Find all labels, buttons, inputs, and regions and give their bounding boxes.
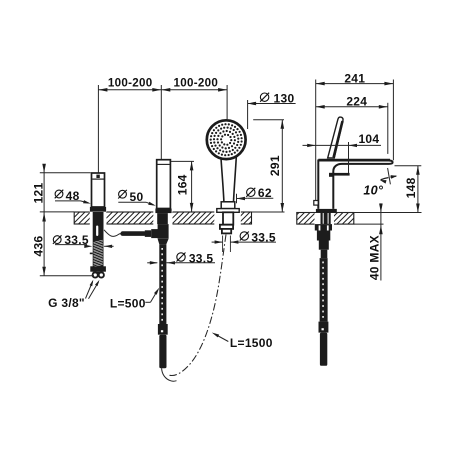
label D62 xyxy=(247,188,255,196)
dimension 121 / 436 xyxy=(43,164,45,275)
svg-text:100-200: 100-200 xyxy=(173,76,218,89)
dimension 164 xyxy=(171,160,194,162)
side tab xyxy=(314,201,318,206)
middle column cap xyxy=(157,160,171,209)
mixer lever xyxy=(328,117,343,158)
svg-text:104: 104 xyxy=(358,132,379,146)
dimension D130 xyxy=(260,93,268,101)
right view hose lower part xyxy=(320,333,327,366)
holder extension lines xyxy=(222,236,224,253)
svg-text:148: 148 xyxy=(404,177,418,198)
left handle indicator dot xyxy=(96,175,99,178)
left handle cap line xyxy=(92,178,104,180)
label D50 xyxy=(119,190,127,198)
svg-text:L=500: L=500 xyxy=(110,296,146,310)
braided hose L=500 upper part xyxy=(159,244,166,324)
middle column lower nut xyxy=(158,224,169,239)
label D33.5 holder rod xyxy=(240,232,248,240)
handshower holder flange xyxy=(217,209,239,213)
handshower hose curve L=1500 xyxy=(170,235,227,376)
svg-text:40 MAX: 40 MAX xyxy=(368,235,382,280)
svg-text:241: 241 xyxy=(344,71,365,85)
left handle column body xyxy=(92,173,105,207)
hose end curve xyxy=(162,368,177,381)
svg-text:100-200: 100-200 xyxy=(108,76,153,89)
right view hose connector xyxy=(319,322,329,333)
left rod bottom collar xyxy=(90,266,106,271)
thin hose s-curve xyxy=(104,230,121,237)
taper into braided hose xyxy=(158,239,169,245)
dimension 148 xyxy=(395,165,422,167)
svg-text:L=1500: L=1500 xyxy=(230,336,273,350)
deck slab right view xyxy=(297,213,354,225)
dimension 291 xyxy=(253,119,284,121)
handshower handle xyxy=(221,153,237,202)
mixer body outline xyxy=(318,161,392,209)
left rod white slot xyxy=(96,226,98,237)
right view mounting nut xyxy=(315,224,332,230)
deck top line extension right view xyxy=(297,212,422,214)
handshower head xyxy=(207,120,246,159)
middle column through-deck xyxy=(157,213,168,224)
spout top thick line xyxy=(318,159,390,161)
right view braided hose xyxy=(320,258,328,322)
deck bottom line extension right view xyxy=(354,223,384,225)
svg-text:121: 121 xyxy=(32,183,46,204)
holder through-deck rod xyxy=(223,212,233,224)
middle column base flange xyxy=(155,209,171,214)
extension line left handle centerline xyxy=(97,85,99,173)
dimension 100-200 second span xyxy=(161,89,227,91)
aerator bar under spout xyxy=(329,173,350,176)
svg-text:436: 436 xyxy=(32,236,46,257)
dimension 104 xyxy=(348,142,350,173)
handshower spray dots xyxy=(210,123,243,156)
angle indicator 10deg xyxy=(388,168,391,184)
dimension 224 xyxy=(387,103,389,154)
left handle base flange xyxy=(90,207,106,212)
holder lower nut xyxy=(220,225,233,229)
handshower holder collar xyxy=(221,202,235,209)
svg-text:224: 224 xyxy=(346,94,367,108)
dimension 241 xyxy=(315,80,317,202)
left handle threaded rod below deck xyxy=(93,212,104,267)
extension line handshower centerline xyxy=(226,85,228,119)
right view through-deck rod xyxy=(321,213,331,225)
label D33.5 left rod xyxy=(53,236,61,244)
dimension 100-200 first span xyxy=(98,89,161,91)
deck slab left view xyxy=(74,212,251,224)
mixer base flange xyxy=(316,209,337,213)
hose connector xyxy=(158,324,168,335)
svg-text:10°: 10° xyxy=(363,184,384,198)
extension line middle column centerline xyxy=(160,85,162,159)
left rod side nub xyxy=(90,253,93,255)
left rod hose end circles G3/8 xyxy=(93,272,98,277)
hose lower part xyxy=(159,335,166,369)
dimension 40 MAX xyxy=(380,203,382,280)
supply hose horizontal xyxy=(120,231,146,236)
svg-text:G 3/8": G 3/8" xyxy=(48,296,85,310)
svg-text:164: 164 xyxy=(175,174,189,195)
label D33.5 middle hose xyxy=(177,253,185,261)
label D48 xyxy=(55,190,63,198)
svg-text:291: 291 xyxy=(268,155,282,176)
